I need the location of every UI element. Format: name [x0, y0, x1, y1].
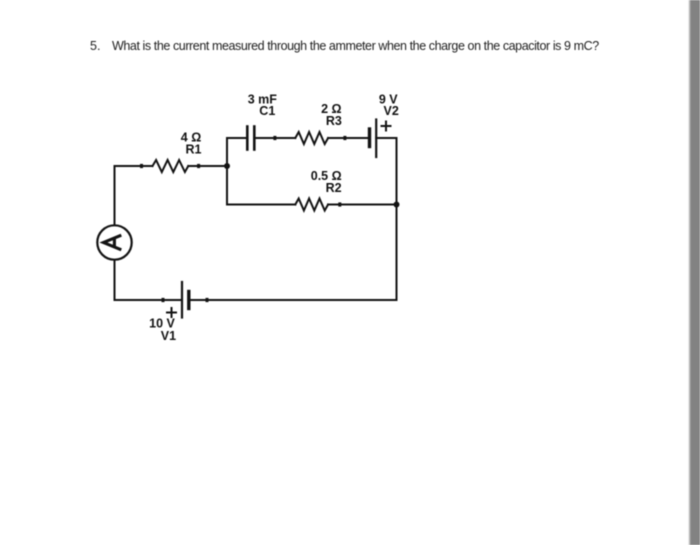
wire bottom-left to battery V1 [115, 299, 181, 301]
battery V2 [370, 120, 377, 158]
wire left vertical lower (ammeter to bottom) [114, 260, 116, 300]
svg-text:R1: R1 [186, 143, 202, 157]
wire left vertical upper (node to ammeter) [114, 166, 116, 225]
wire node down to R2 branch [227, 166, 295, 205]
junction node left [224, 163, 230, 169]
pin tick right of C1 [273, 136, 276, 140]
wire right lead of R1 to node [188, 165, 227, 167]
wire right vertical [396, 138, 398, 300]
pin tick left of V2 [343, 136, 346, 140]
wire battery V1 to bottom-right [190, 299, 397, 301]
battery V1 [182, 282, 189, 318]
ammeter letter A (rotated, drawn) [104, 235, 122, 250]
resistor R3 [295, 132, 328, 144]
svg-text:V2: V2 [384, 104, 399, 118]
wire node up to capacitor branch [227, 138, 246, 166]
resistor R2 [295, 199, 328, 211]
resistor R1 [153, 160, 189, 172]
pin tick left of V1 [162, 298, 165, 302]
svg-text:R2: R2 [326, 181, 342, 195]
junction node right [394, 202, 400, 208]
svg-text:R3: R3 [326, 114, 342, 128]
wire top-left horizontal (left lead of R1) [115, 165, 153, 167]
svg-text:V1: V1 [161, 329, 176, 343]
wire R3 to battery V2 [328, 137, 368, 139]
capacitor C1 [247, 127, 254, 150]
pin tick right of V1 [206, 298, 209, 302]
pin tick right of R1 [197, 164, 200, 168]
plus sign of V2 [382, 122, 391, 131]
pin tick right of R2 [338, 202, 341, 206]
ammeter A [97, 225, 131, 259]
wire capacitor to R3 [256, 137, 296, 139]
pin tick left of R1 [140, 164, 143, 168]
plus sign of V1 [167, 308, 176, 317]
svg-text:C1: C1 [259, 104, 275, 118]
wire battery V2 to top-right corner [376, 137, 396, 139]
wire R2 to right vertical [328, 204, 396, 206]
